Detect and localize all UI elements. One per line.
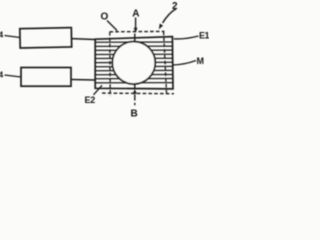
rotor mass M (circle)	[112, 42, 155, 84]
svg-text:4: 4	[0, 70, 4, 80]
svg-text:B: B	[131, 108, 138, 119]
leader from O	[107, 21, 117, 31]
dashed enclosure 2 : right edge	[164, 32, 167, 93]
svg-text:E1: E1	[199, 31, 209, 41]
centre bottom stub	[134, 84, 136, 89]
leader from E2	[94, 85, 103, 95]
dashed enclosure 2 : bottom edge	[102, 92, 174, 95]
leader from M	[173, 61, 197, 66]
arrow 2 (curved, down-left)	[163, 9, 176, 23]
wire top	[72, 38, 96, 41]
dashed enclosure 2 : top edge	[110, 30, 165, 32]
box 4 (bottom)	[21, 68, 71, 87]
svg-text:4: 4	[0, 30, 4, 40]
svg-text:M: M	[197, 56, 205, 66]
leader from E1	[174, 36, 199, 39]
centre top stub	[134, 34, 136, 42]
housing outline	[95, 37, 173, 89]
arrow A (down)	[135, 18, 137, 29]
dashed enclosure 2 : left edge	[109, 32, 111, 96]
leader from label 4 (top)	[5, 36, 21, 38]
wire bottom	[71, 79, 96, 82]
leader from label 4 (bottom)	[5, 75, 22, 77]
svg-text:E2: E2	[85, 95, 96, 105]
arrow B (up)	[133, 89, 137, 94]
hatching (stator blocks)	[96, 42, 173, 83]
box 4 (top)	[20, 28, 72, 48]
